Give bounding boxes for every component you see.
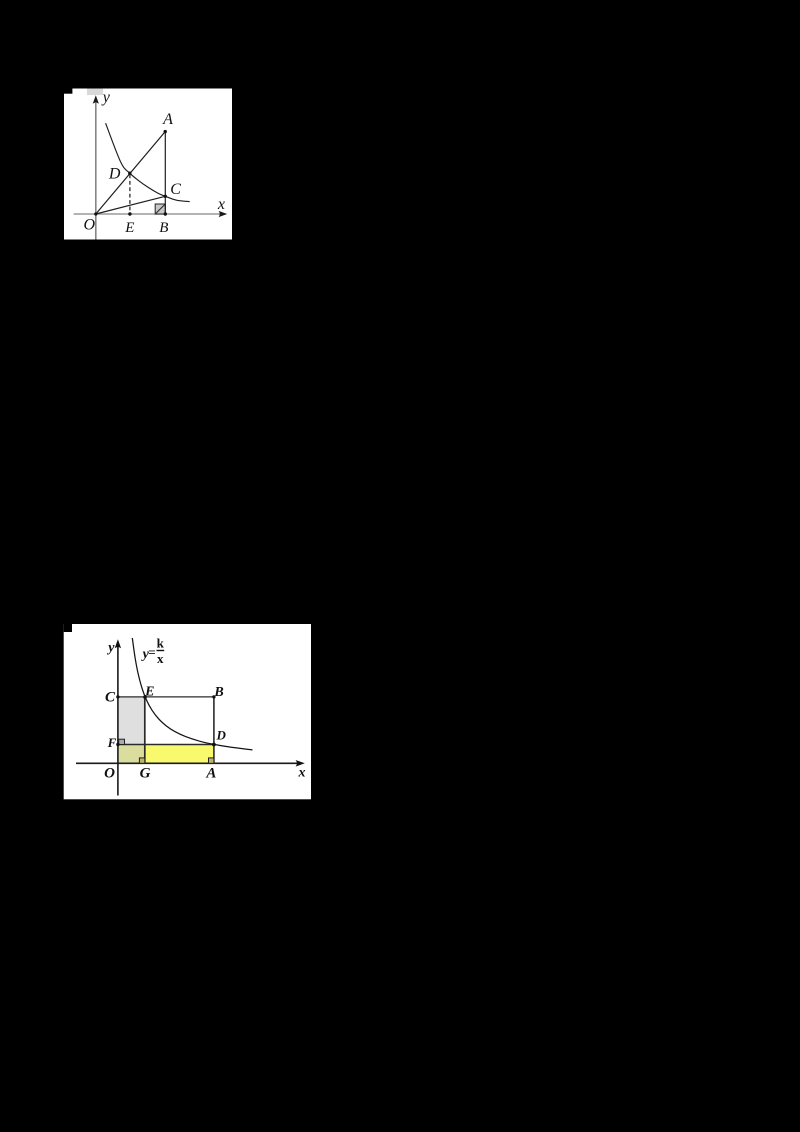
point B (fig 2) <box>212 695 215 698</box>
svg-text:A: A <box>205 765 216 781</box>
svg-text:O: O <box>84 217 96 234</box>
svg-text:=: = <box>148 644 155 659</box>
svg-text:x: x <box>298 765 306 780</box>
point D (fig 1) <box>128 172 131 175</box>
svg-text:O: O <box>104 765 115 781</box>
svg-text:B: B <box>159 220 168 236</box>
khaki shaded rectangle left of G (fig 2) <box>118 745 145 764</box>
svg-text:D: D <box>216 728 227 743</box>
point O (fig 1) <box>94 212 97 215</box>
right-angle square at B (fig 1) <box>155 204 165 214</box>
svg-text:y: y <box>101 89 111 106</box>
svg-text:B: B <box>213 685 223 700</box>
gray shaded rectangle CEGF-zone (fig 2) <box>118 697 145 745</box>
formula label y=k/x (fig 2) <box>141 636 165 666</box>
svg-text:x: x <box>217 196 225 213</box>
point C (fig 1) <box>164 195 167 198</box>
svg-text:D: D <box>108 166 121 183</box>
svg-text:k: k <box>157 636 165 651</box>
point C (fig 2) <box>116 695 119 698</box>
segment EG vertical (fig 2) <box>144 697 146 763</box>
panel 2 white background <box>64 624 311 799</box>
hyperbola curve (fig 1) <box>106 123 190 201</box>
svg-text:x: x <box>157 651 164 666</box>
hyperbola curve y=k/x (fig 2) <box>132 638 252 750</box>
dashed line DE (fig 1) <box>129 175 131 214</box>
point D (fig 2) <box>212 743 216 747</box>
point E (fig 1) <box>128 212 131 215</box>
svg-text:E: E <box>124 220 134 236</box>
point A (fig 1) <box>164 130 167 133</box>
y-axis (fig 2) <box>115 639 121 795</box>
y-axis (fig 1) <box>93 95 99 239</box>
right-angle mark at G (fig 2) <box>139 758 144 763</box>
svg-text:C: C <box>170 181 181 198</box>
segment FD horizontal (fig 2) <box>118 744 214 746</box>
right-angle mark at A (fig 2) <box>209 758 214 763</box>
x-axis (fig 2) <box>76 760 305 767</box>
panel 1 white background <box>64 89 232 240</box>
point F (fig 2) <box>116 743 119 746</box>
point E (fig 2) <box>143 695 147 699</box>
svg-text:y: y <box>106 640 115 655</box>
rectangle side BA right (fig 2) <box>213 697 215 763</box>
line OC (fig 1) <box>96 196 166 214</box>
svg-text:G: G <box>140 766 151 782</box>
svg-text:A: A <box>162 111 173 128</box>
x-axis (fig 1) <box>74 211 228 217</box>
rectangle side CB top (fig 2) <box>118 696 214 698</box>
yellow shaded rectangle G to A (fig 2) <box>145 745 214 764</box>
svg-text:E: E <box>144 684 154 699</box>
svg-text:C: C <box>105 690 116 706</box>
line OA (fig 1) <box>96 132 166 215</box>
svg-text:F: F <box>107 735 117 750</box>
point B (fig 1) <box>164 212 167 215</box>
right-angle mark at F (fig 2) <box>119 739 125 744</box>
line AB (fig 1) <box>164 132 166 215</box>
